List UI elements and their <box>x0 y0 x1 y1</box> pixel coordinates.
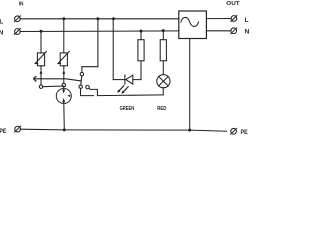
svg-text:IN: IN <box>19 1 24 7</box>
svg-text:GREEN: GREEN <box>120 106 135 112</box>
svg-text:OUT: OUT <box>226 1 240 7</box>
svg-text:N: N <box>0 30 4 37</box>
svg-text:PE: PE <box>241 129 249 136</box>
svg-text:RED: RED <box>157 106 166 112</box>
svg-text:L: L <box>245 17 249 24</box>
svg-text:L: L <box>0 18 3 25</box>
svg-text:N: N <box>245 29 250 36</box>
svg-text:PE: PE <box>0 128 7 135</box>
